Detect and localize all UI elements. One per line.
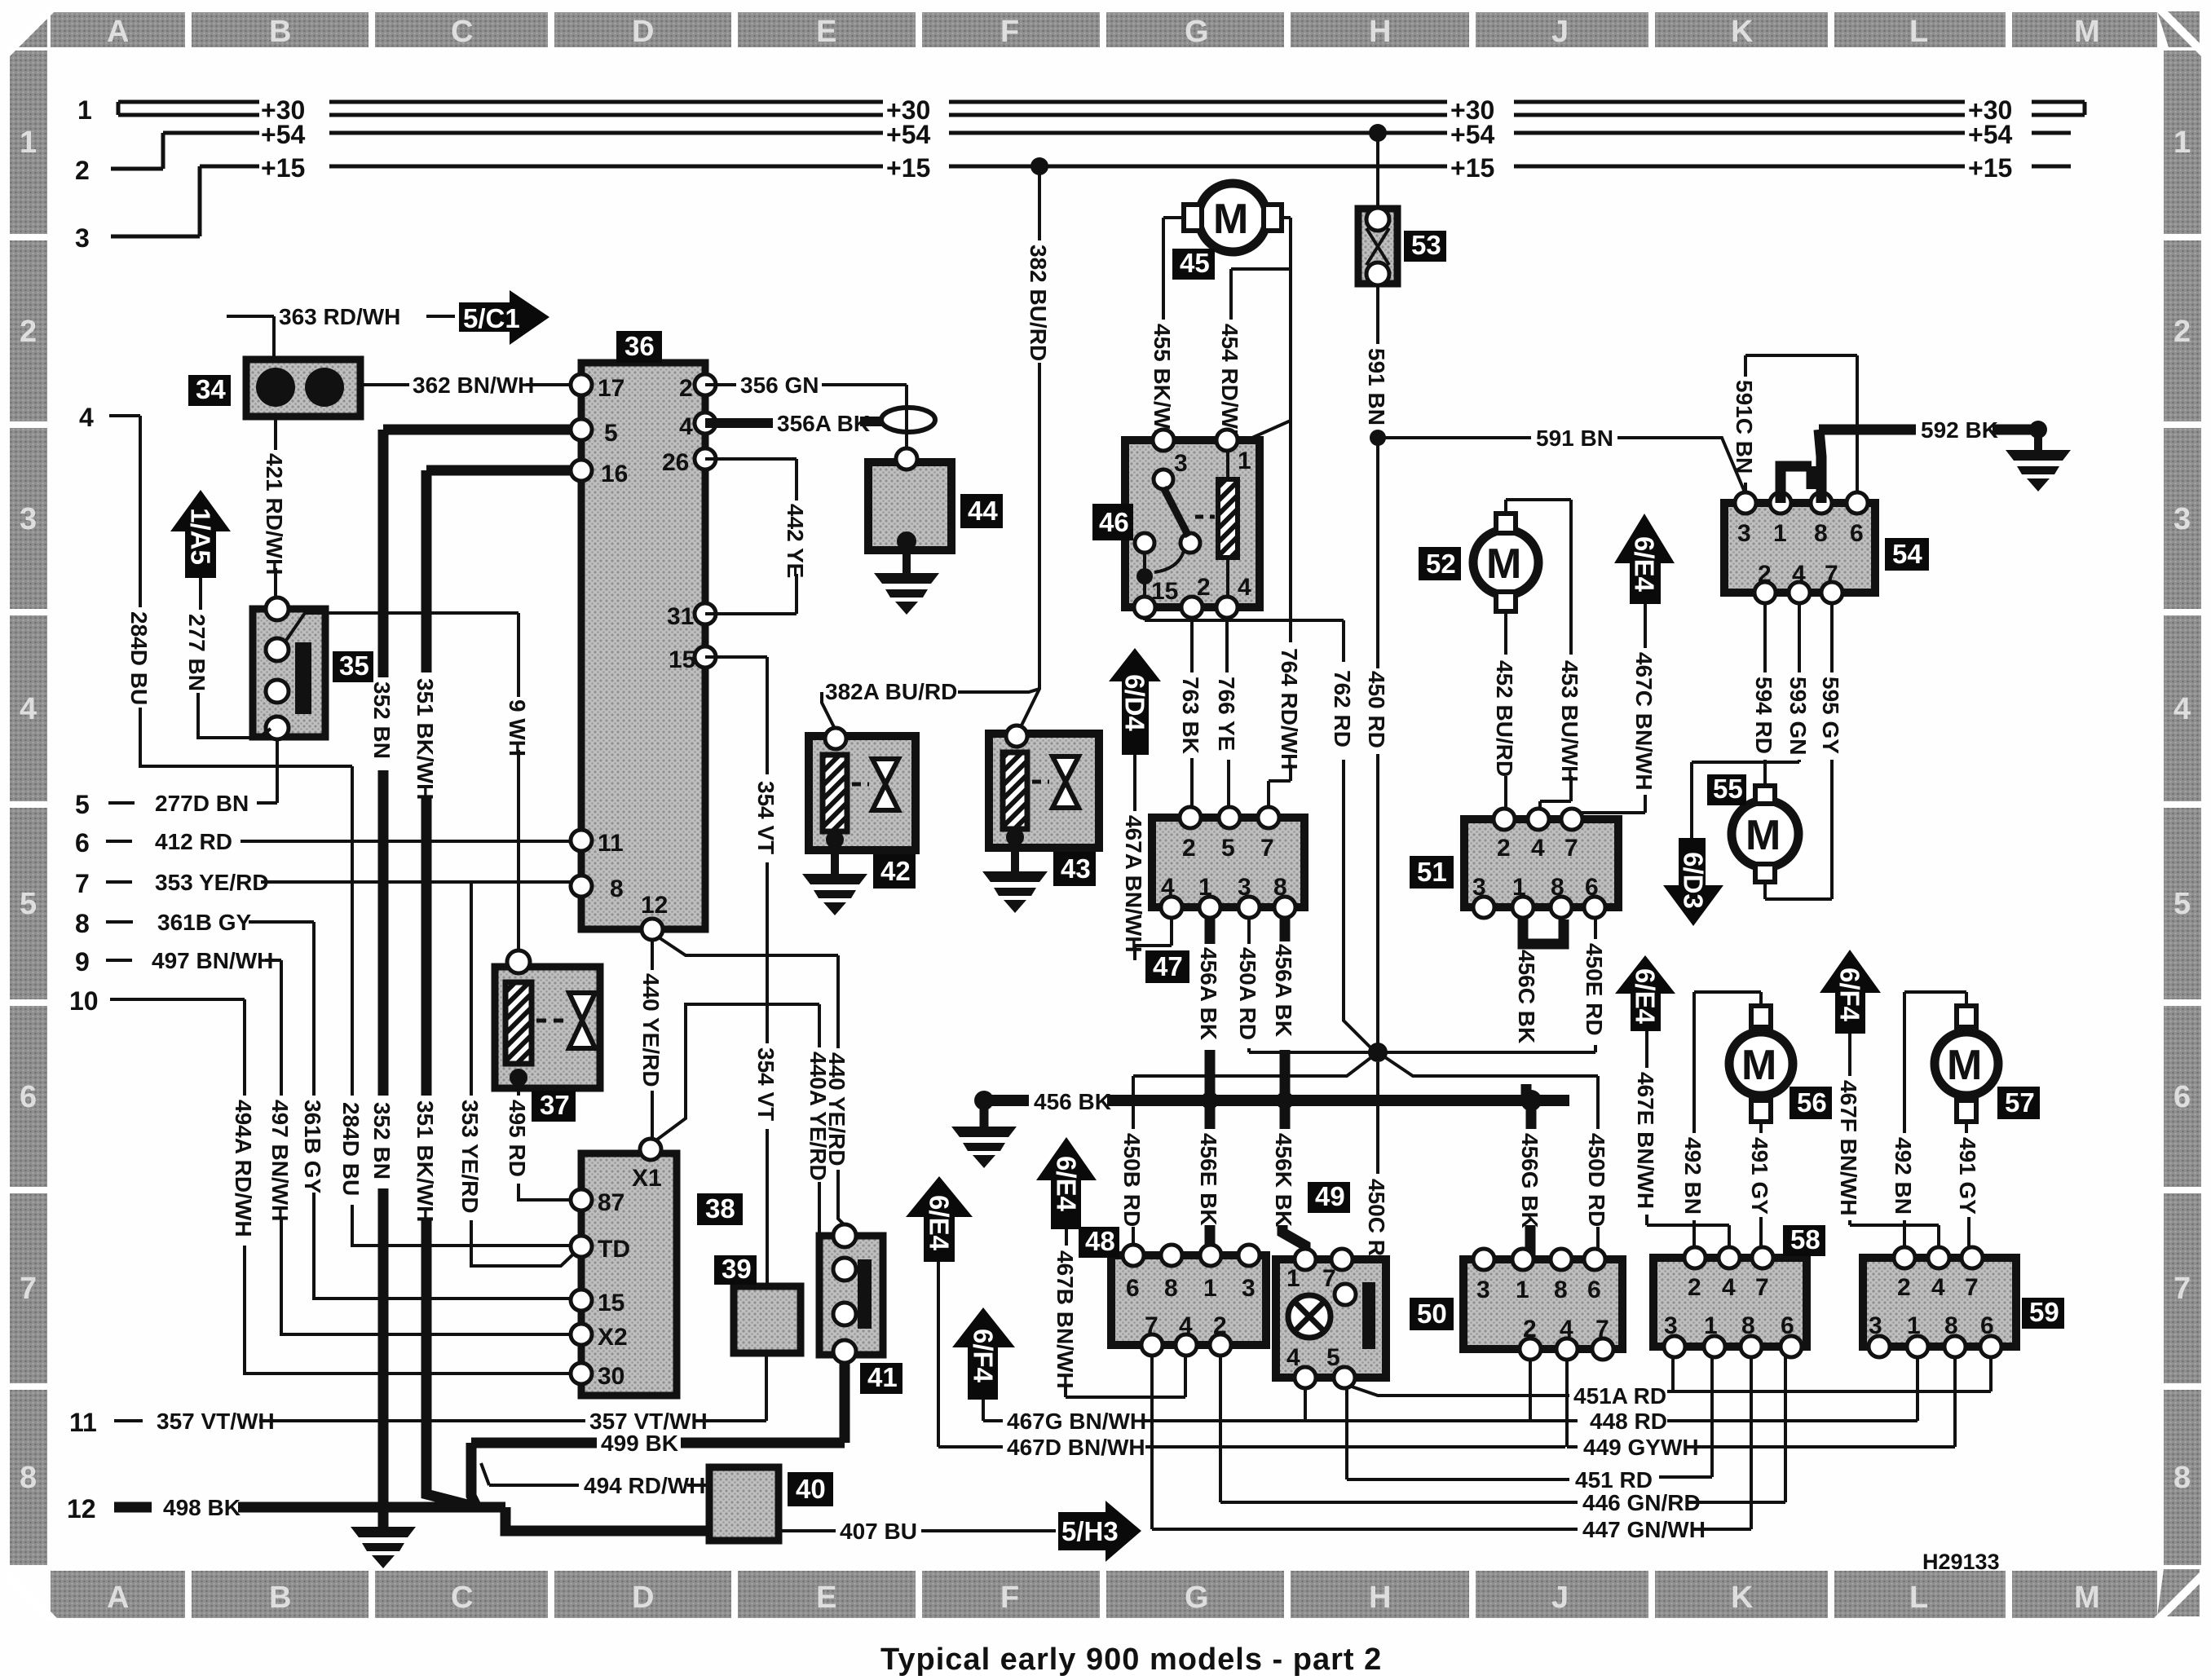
svg-text:3: 3 bbox=[1238, 874, 1251, 901]
svg-text:467E BN/WH: 467E BN/WH bbox=[1633, 1072, 1658, 1209]
svg-text:7: 7 bbox=[1825, 561, 1838, 588]
label 40 bbox=[788, 1472, 833, 1506]
wire 9 WH bbox=[285, 613, 519, 949]
svg-text:382 BU/RD: 382 BU/RD bbox=[1026, 245, 1051, 361]
arrow 6/E4 (467C) bbox=[1614, 514, 1675, 604]
junction 591/450/54 bbox=[1370, 430, 1386, 446]
diode unit 40 bbox=[709, 1467, 779, 1541]
label 36 bbox=[616, 331, 662, 363]
svg-text:354 VT: 354 VT bbox=[753, 1047, 779, 1121]
label 34 bbox=[188, 375, 231, 406]
wire 442 YE bracket (pin 26 to pin 31) bbox=[705, 459, 797, 614]
relay connector 38 bbox=[571, 1139, 677, 1396]
junction +54/591 BN bbox=[1369, 124, 1387, 142]
wire 591C BN jumper (54 pin3-pin6) bbox=[1745, 355, 1857, 502]
svg-text:361B GY: 361B GY bbox=[157, 910, 251, 935]
svg-text:8: 8 bbox=[1944, 1312, 1958, 1339]
svg-text:592 BK: 592 BK bbox=[1921, 417, 1998, 443]
label 35 bbox=[333, 651, 373, 682]
wiper interval relay connector 54 bbox=[1724, 492, 1875, 603]
wire 467F BN/WH bbox=[1850, 1034, 1939, 1255]
svg-text:499 BK: 499 BK bbox=[601, 1431, 678, 1456]
label 56 bbox=[1790, 1087, 1832, 1119]
border frame left band bbox=[10, 51, 47, 1565]
svg-text:1: 1 bbox=[1198, 874, 1212, 901]
label 55 bbox=[1707, 774, 1746, 805]
label 54 bbox=[1885, 538, 1929, 571]
connector 34 bbox=[246, 359, 360, 417]
svg-text:7: 7 bbox=[1322, 1265, 1336, 1292]
svg-text:10: 10 bbox=[69, 986, 99, 1016]
arrow 6/E4 (467D) bbox=[906, 1176, 973, 1262]
arrow 6/D4 bbox=[1109, 648, 1161, 755]
wire 455 BK/WH bbox=[1163, 218, 1184, 320]
svg-text:407 BU: 407 BU bbox=[840, 1519, 917, 1544]
svg-text:M: M bbox=[1741, 1042, 1776, 1089]
svg-text:58: 58 bbox=[1790, 1224, 1820, 1254]
svg-text:J: J bbox=[1551, 1581, 1569, 1615]
ground (44) bbox=[874, 573, 939, 615]
svg-text:446 GN/RD: 446 GN/RD bbox=[1582, 1490, 1701, 1515]
wire 450 RD bbox=[1376, 438, 1379, 1043]
wire 446 GN/RD bbox=[1220, 1356, 1785, 1502]
svg-text:30: 30 bbox=[598, 1363, 624, 1390]
wire 284D BU (row 4) bbox=[109, 416, 571, 1246]
arrow 6/E4 (467E) bbox=[1615, 955, 1675, 1031]
svg-text:8: 8 bbox=[20, 1461, 37, 1495]
svg-text:453 BU/WH: 453 BU/WH bbox=[1557, 660, 1582, 782]
svg-text:L: L bbox=[1909, 15, 1928, 49]
wire 467C BN/WH bbox=[1570, 604, 1645, 817]
svg-text:M: M bbox=[1947, 1042, 1982, 1089]
svg-text:D: D bbox=[632, 1581, 654, 1615]
svg-text:M: M bbox=[1745, 812, 1781, 859]
svg-text:352 BN: 352 BN bbox=[369, 681, 395, 759]
svg-text:6/F4: 6/F4 bbox=[969, 1329, 999, 1383]
label 52 bbox=[1419, 547, 1461, 580]
svg-text:2: 2 bbox=[1213, 1312, 1227, 1339]
svg-text:456K BK: 456K BK bbox=[1271, 1133, 1296, 1227]
svg-text:4: 4 bbox=[2173, 692, 2191, 726]
svg-text:8: 8 bbox=[1273, 874, 1287, 901]
svg-text:15: 15 bbox=[1151, 578, 1178, 605]
svg-text:1: 1 bbox=[1907, 1312, 1921, 1339]
svg-text:6: 6 bbox=[1126, 1275, 1140, 1302]
thick wire 456E BK bbox=[1205, 1100, 1216, 1245]
wire 498 BK (row 12, thick) bbox=[114, 1507, 708, 1531]
svg-text:K: K bbox=[1731, 1581, 1754, 1615]
headlamp wiper motor connector 58 bbox=[1653, 1247, 1807, 1357]
svg-text:5/H3: 5/H3 bbox=[1061, 1516, 1119, 1546]
svg-text:47: 47 bbox=[1153, 951, 1183, 981]
wire 421 RD/WH bbox=[274, 417, 277, 599]
svg-text:277D BN: 277D BN bbox=[155, 791, 249, 816]
svg-text:16: 16 bbox=[601, 461, 628, 487]
svg-text:51: 51 bbox=[1417, 857, 1447, 887]
label 59 bbox=[2022, 1298, 2064, 1329]
wire 451A RD bbox=[1349, 1356, 1991, 1396]
distribution node 450 RD bbox=[1368, 1043, 1388, 1062]
wire 382A BU/RD bracket bbox=[822, 689, 1039, 732]
svg-text:L: L bbox=[1909, 1581, 1928, 1615]
svg-text:440 YE/RD: 440 YE/RD bbox=[638, 973, 664, 1087]
svg-text:1: 1 bbox=[1238, 448, 1251, 474]
svg-text:421 RD/WH: 421 RD/WH bbox=[262, 453, 287, 575]
svg-text:494A RD/WH: 494A RD/WH bbox=[231, 1100, 256, 1237]
svg-text:4: 4 bbox=[1560, 1316, 1573, 1343]
joint ellipse bbox=[881, 408, 935, 432]
svg-text:450D RD: 450D RD bbox=[1584, 1133, 1609, 1227]
wiper relay connector 47 bbox=[1152, 807, 1304, 918]
svg-text:1: 1 bbox=[1704, 1312, 1718, 1339]
wire 354 VT bbox=[705, 657, 767, 1286]
svg-text:467D BN/WH: 467D BN/WH bbox=[1007, 1435, 1145, 1460]
svg-text:4: 4 bbox=[1161, 874, 1175, 901]
svg-text:36: 36 bbox=[624, 331, 655, 361]
svg-text:40: 40 bbox=[796, 1474, 826, 1504]
motor 55 bbox=[1732, 786, 1798, 882]
wire 467A BN/WH bbox=[1135, 755, 1172, 960]
label 44 bbox=[960, 494, 1003, 528]
svg-text:456C BK: 456C BK bbox=[1514, 950, 1539, 1043]
wire 353 YE/RD (row 7) bbox=[106, 882, 579, 1266]
svg-text:M: M bbox=[2074, 15, 2100, 49]
wire 492 BN (motor 57) bbox=[1904, 992, 1966, 1253]
svg-text:17: 17 bbox=[598, 375, 624, 402]
svg-text:451 RD: 451 RD bbox=[1575, 1467, 1653, 1493]
arrow 5/C1 bbox=[459, 290, 549, 345]
svg-text:593 GN: 593 GN bbox=[1785, 677, 1811, 756]
washer relay connector 51 bbox=[1464, 809, 1618, 918]
svg-text:6: 6 bbox=[1585, 874, 1599, 901]
svg-text:450B RD: 450B RD bbox=[1119, 1133, 1145, 1227]
svg-text:H: H bbox=[1369, 15, 1391, 49]
svg-text:467B BN/WH: 467B BN/WH bbox=[1053, 1250, 1078, 1389]
headlamp wiper motor connector 59 bbox=[1863, 1247, 2016, 1357]
svg-text:+54: +54 bbox=[886, 120, 930, 149]
bus end dot + ground bbox=[974, 1091, 994, 1110]
svg-text:6: 6 bbox=[1587, 1277, 1601, 1303]
svg-text:7: 7 bbox=[1260, 835, 1274, 862]
svg-text:353 YE/RD: 353 YE/RD bbox=[457, 1100, 483, 1214]
wire 412 RD (row 6) bbox=[106, 841, 571, 843]
label 38 bbox=[697, 1193, 743, 1225]
svg-text:6/F4: 6/F4 bbox=[1835, 968, 1865, 1022]
svg-text:2: 2 bbox=[1197, 574, 1211, 601]
svg-text:6/E4: 6/E4 bbox=[1052, 1156, 1082, 1212]
svg-text:45: 45 bbox=[1180, 248, 1210, 278]
wire 356 GN bbox=[705, 385, 907, 450]
svg-text:2: 2 bbox=[1897, 1274, 1911, 1301]
svg-text:8: 8 bbox=[2173, 1461, 2191, 1495]
wire 450A RD bbox=[1249, 918, 1369, 1052]
svg-text:5: 5 bbox=[75, 790, 90, 819]
wire 591 BN (fuse feed) bbox=[1378, 133, 1745, 668]
svg-text:48: 48 bbox=[1085, 1226, 1115, 1256]
svg-text:6: 6 bbox=[2173, 1080, 2191, 1114]
svg-text:4: 4 bbox=[79, 403, 94, 432]
svg-text:59: 59 bbox=[2029, 1297, 2059, 1327]
motor 52 bbox=[1473, 514, 1538, 611]
wire 352 BN (thick) bbox=[383, 430, 571, 1527]
svg-text:9: 9 bbox=[75, 947, 90, 977]
svg-text:49: 49 bbox=[1315, 1181, 1345, 1211]
fuse 53 bbox=[1358, 208, 1397, 285]
svg-text:7: 7 bbox=[1755, 1274, 1769, 1301]
wire 452 BU/RD bbox=[1504, 611, 1507, 817]
svg-text:766 YE: 766 YE bbox=[1214, 677, 1239, 751]
label 57 bbox=[1997, 1087, 2040, 1119]
svg-text:6/D3: 6/D3 bbox=[1679, 852, 1709, 909]
svg-text:+15: +15 bbox=[1968, 153, 2012, 183]
earth bus 456 BK (thick) bbox=[984, 1095, 1569, 1106]
svg-text:8: 8 bbox=[1554, 1277, 1568, 1303]
wire 440 YE/RD bbox=[652, 937, 845, 1225]
solenoid valve 42 bbox=[809, 728, 916, 874]
wire 764 RD/WH bbox=[1238, 269, 1291, 815]
label 46 bbox=[1092, 504, 1133, 540]
wire 763 BK bbox=[1190, 618, 1194, 815]
svg-text:6: 6 bbox=[75, 828, 90, 858]
svg-text:7: 7 bbox=[2173, 1272, 2191, 1306]
arrow 6/F4 (467F) bbox=[1820, 950, 1881, 1034]
svg-text:53: 53 bbox=[1411, 230, 1441, 260]
svg-text:M: M bbox=[1486, 540, 1521, 588]
svg-text:1: 1 bbox=[1773, 520, 1787, 547]
component 39 bbox=[734, 1286, 801, 1353]
border frame top band bbox=[51, 12, 2157, 49]
svg-text:8: 8 bbox=[1814, 520, 1828, 547]
svg-text:43: 43 bbox=[1061, 853, 1091, 884]
label 37 bbox=[532, 1091, 576, 1122]
label 43 bbox=[1053, 852, 1096, 886]
svg-text:3: 3 bbox=[1472, 874, 1486, 901]
svg-text:E: E bbox=[816, 1581, 836, 1615]
label 45 bbox=[1172, 249, 1215, 280]
wire 447 GN/WH bbox=[1152, 1356, 1751, 1529]
wire 382 BU/RD bbox=[1018, 166, 1039, 732]
svg-text:3: 3 bbox=[2173, 502, 2191, 536]
svg-text:467A BN/WH: 467A BN/WH bbox=[1121, 815, 1146, 953]
svg-text:1: 1 bbox=[20, 126, 37, 160]
wire 766 YE bbox=[1227, 618, 1229, 815]
wire 451 RD bbox=[1347, 1356, 1712, 1479]
svg-text:31: 31 bbox=[667, 603, 694, 630]
ground (42) bbox=[802, 874, 867, 915]
svg-text:55: 55 bbox=[1713, 774, 1743, 804]
svg-text:9 WH: 9 WH bbox=[505, 699, 530, 756]
border frame bottom band bbox=[51, 1571, 2157, 1618]
svg-text:351 BK/WH: 351 BK/WH bbox=[413, 1100, 438, 1222]
wire 362 BN/WH bbox=[360, 383, 571, 386]
svg-text:354 VT: 354 VT bbox=[753, 781, 779, 854]
svg-text:447 GN/WH: 447 GN/WH bbox=[1582, 1517, 1706, 1542]
wire 277 BN bbox=[198, 578, 271, 738]
svg-text:11: 11 bbox=[598, 830, 624, 857]
svg-text:4: 4 bbox=[1722, 1274, 1736, 1301]
bus junction blobs bbox=[1201, 1091, 1219, 1109]
wire 593 GN bbox=[1692, 603, 1799, 838]
headlamp wiper connector 48 bbox=[1111, 1245, 1266, 1356]
svg-text:5: 5 bbox=[1326, 1344, 1340, 1371]
ground (352 BN bus) bbox=[351, 1527, 416, 1568]
arrow 6/D3 (down) bbox=[1663, 838, 1723, 926]
svg-text:284D BU: 284D BU bbox=[338, 1102, 364, 1196]
svg-text:467G BN/WH: 467G BN/WH bbox=[1007, 1409, 1146, 1434]
svg-text:1: 1 bbox=[1286, 1265, 1300, 1292]
wire 467B BN/WH bbox=[1066, 1229, 1185, 1397]
wire 494A RD/WH (row 10) bbox=[110, 999, 571, 1374]
svg-text:594 RD: 594 RD bbox=[1751, 677, 1776, 754]
svg-text:1: 1 bbox=[2173, 126, 2191, 160]
svg-text:6/E4: 6/E4 bbox=[1631, 968, 1661, 1025]
svg-text:B: B bbox=[269, 1581, 291, 1615]
svg-text:5: 5 bbox=[20, 887, 37, 921]
svg-text:497 BN/WH: 497 BN/WH bbox=[267, 1100, 293, 1221]
label 39 bbox=[714, 1255, 757, 1285]
svg-text:38: 38 bbox=[705, 1193, 735, 1224]
svg-text:467C BN/WH: 467C BN/WH bbox=[1631, 652, 1657, 791]
svg-text:492 BN: 492 BN bbox=[1680, 1137, 1706, 1215]
wire 467D BN/WH bbox=[938, 1262, 1955, 1447]
svg-text:2: 2 bbox=[1688, 1274, 1701, 1301]
svg-text:B: B bbox=[269, 15, 291, 49]
svg-text:E: E bbox=[816, 15, 836, 49]
svg-text:7: 7 bbox=[20, 1272, 37, 1306]
wire 361B GY (row 8) bbox=[106, 922, 571, 1299]
svg-text:12: 12 bbox=[67, 1494, 96, 1523]
svg-text:591C BN: 591C BN bbox=[1732, 380, 1757, 474]
svg-text:456 BK: 456 BK bbox=[1034, 1089, 1111, 1114]
wire 448 RD stub bbox=[1529, 1360, 1532, 1421]
wire 595 GY bbox=[1765, 603, 1832, 899]
svg-text:591 BN: 591 BN bbox=[1364, 348, 1389, 426]
svg-text:3: 3 bbox=[20, 502, 37, 536]
svg-text:351 BK/WH: 351 BK/WH bbox=[413, 678, 438, 800]
svg-text:357 VT/WH: 357 VT/WH bbox=[157, 1409, 275, 1434]
sensor 44 bbox=[868, 448, 951, 573]
svg-text:26: 26 bbox=[662, 449, 689, 476]
svg-text:452 BU/RD: 452 BU/RD bbox=[1492, 660, 1517, 777]
+30 supply bus (double line) bbox=[118, 102, 2085, 115]
svg-text:42: 42 bbox=[880, 856, 911, 886]
+54 supply bus bbox=[111, 133, 2071, 169]
svg-text:352 BN: 352 BN bbox=[369, 1102, 395, 1180]
svg-text:284D BU: 284D BU bbox=[126, 611, 152, 705]
svg-text:15: 15 bbox=[598, 1290, 624, 1316]
svg-text:2: 2 bbox=[679, 375, 693, 402]
motor 45 bbox=[1184, 183, 1282, 252]
arrow 1/A5 bbox=[170, 490, 231, 578]
svg-text:3: 3 bbox=[1174, 450, 1188, 477]
svg-text:7: 7 bbox=[1965, 1274, 1979, 1301]
svg-text:2: 2 bbox=[1182, 835, 1196, 862]
thick wire 456K BK bbox=[1282, 1100, 1305, 1257]
svg-text:44: 44 bbox=[968, 496, 998, 526]
svg-text:456A BK: 456A BK bbox=[1196, 947, 1221, 1040]
svg-text:450E RD: 450E RD bbox=[1582, 943, 1607, 1036]
svg-text:277 BN: 277 BN bbox=[184, 614, 210, 691]
node branch wires bbox=[1133, 918, 1598, 1265]
svg-text:11: 11 bbox=[69, 1408, 97, 1437]
svg-text:595 GY: 595 GY bbox=[1818, 677, 1843, 754]
svg-text:8: 8 bbox=[1164, 1275, 1178, 1302]
svg-text:498 BK: 498 BK bbox=[163, 1495, 241, 1520]
svg-text:3: 3 bbox=[75, 223, 90, 253]
label 53 bbox=[1404, 231, 1446, 262]
svg-text:K: K bbox=[1731, 15, 1754, 49]
svg-text:491 GY: 491 GY bbox=[1747, 1137, 1772, 1215]
svg-text:450 RD: 450 RD bbox=[1364, 671, 1389, 748]
svg-text:+15: +15 bbox=[1450, 153, 1494, 183]
svg-text:5/C1: 5/C1 bbox=[463, 303, 520, 333]
svg-text:39: 39 bbox=[722, 1254, 752, 1284]
label 50 bbox=[1410, 1298, 1454, 1330]
svg-text:1: 1 bbox=[1512, 874, 1526, 901]
svg-text:M: M bbox=[1213, 196, 1248, 243]
svg-text:4: 4 bbox=[679, 413, 693, 440]
label 47 bbox=[1145, 950, 1189, 983]
svg-text:449 GYWH: 449 GYWH bbox=[1583, 1435, 1699, 1460]
wire 467E BN/WH bbox=[1647, 1031, 1729, 1255]
wire 594 RD bbox=[1763, 603, 1767, 787]
svg-text:G: G bbox=[1185, 15, 1209, 49]
svg-text:6/D4: 6/D4 bbox=[1120, 674, 1150, 731]
svg-text:87: 87 bbox=[598, 1189, 624, 1216]
svg-text:762 RD: 762 RD bbox=[1330, 670, 1355, 747]
svg-text:454 RD/WH: 454 RD/WH bbox=[1217, 324, 1242, 445]
svg-text:763 BK: 763 BK bbox=[1178, 677, 1203, 754]
svg-text:+15: +15 bbox=[886, 153, 930, 183]
svg-text:8: 8 bbox=[1551, 874, 1564, 901]
wire 363 RD/WH bbox=[227, 316, 455, 359]
svg-text:Typical early 900 models - par: Typical early 900 models - part 2 bbox=[880, 1643, 1382, 1677]
svg-text:50: 50 bbox=[1417, 1299, 1447, 1329]
label 48 bbox=[1079, 1227, 1119, 1258]
svg-text:3: 3 bbox=[1664, 1312, 1678, 1339]
svg-text:5: 5 bbox=[604, 420, 618, 447]
svg-text:37: 37 bbox=[540, 1090, 570, 1120]
wire 495 RD bbox=[519, 1078, 571, 1200]
svg-text:57: 57 bbox=[2005, 1087, 2035, 1118]
svg-text:1: 1 bbox=[1516, 1277, 1529, 1303]
svg-text:456G BK: 456G BK bbox=[1517, 1133, 1542, 1228]
svg-text:7: 7 bbox=[1595, 1316, 1609, 1343]
motor 57 bbox=[1935, 1006, 1998, 1122]
wire 277D BN (row 5) bbox=[108, 739, 277, 803]
svg-text:455 BK/WH: 455 BK/WH bbox=[1150, 324, 1175, 445]
svg-text:41: 41 bbox=[867, 1362, 898, 1392]
svg-text:356 GN: 356 GN bbox=[740, 373, 819, 398]
wire 491 GY (motor 56) bbox=[1759, 1122, 1763, 1253]
svg-text:2: 2 bbox=[20, 315, 37, 349]
svg-text:1: 1 bbox=[1203, 1275, 1217, 1302]
svg-text:2: 2 bbox=[75, 156, 90, 185]
svg-text:F: F bbox=[1000, 15, 1019, 49]
svg-text:4: 4 bbox=[1931, 1274, 1945, 1301]
svg-text:M: M bbox=[2074, 1581, 2100, 1615]
svg-text:494 RD/WH: 494 RD/WH bbox=[584, 1473, 705, 1498]
wire 453 BU/WH bbox=[1506, 500, 1571, 817]
svg-text:46: 46 bbox=[1099, 507, 1129, 537]
lamp unit 49 bbox=[1276, 1249, 1386, 1388]
motor 56 bbox=[1729, 1006, 1793, 1122]
label 41 bbox=[860, 1363, 902, 1394]
svg-text:C: C bbox=[451, 1581, 473, 1615]
svg-text:3: 3 bbox=[1737, 520, 1751, 547]
arrow 5/H3 bbox=[1058, 1501, 1141, 1562]
wire 491 GY (motor 57) bbox=[1966, 1122, 1969, 1253]
